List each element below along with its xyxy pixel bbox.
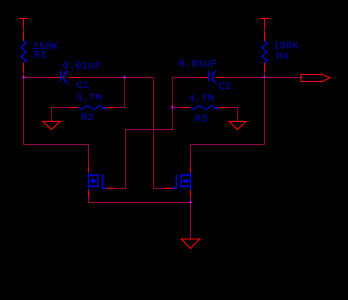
wire sources to ground — [89, 197, 191, 239]
output port — [301, 75, 330, 82]
wire node A to C1 — [24, 77, 51, 79]
label 0.01uF C2 — [179, 58, 232, 93]
svg-text:4.7M: 4.7M — [76, 93, 102, 105]
ground G3 — [181, 239, 199, 249]
resistor R3 — [182, 105, 230, 109]
node B junction — [263, 76, 266, 79]
svg-text:R3: R3 — [195, 113, 208, 125]
transistor M2 — [164, 167, 191, 197]
label 150K R1 — [33, 41, 59, 62]
power symbol V+ right — [260, 19, 270, 27]
svg-text:R1: R1 — [34, 50, 47, 62]
wire right rail top — [264, 27, 266, 34]
svg-text:R2: R2 — [81, 112, 94, 124]
wire node A down to drain M1 — [24, 78, 89, 167]
junction at C1/R2 node — [123, 76, 126, 79]
svg-text:4.7M: 4.7M — [189, 93, 215, 105]
power symbol V+ left — [19, 19, 28, 27]
resistor R4 — [262, 33, 267, 71]
svg-text:0.01uF: 0.01uF — [179, 58, 217, 70]
label 4.7M R2 — [76, 93, 102, 124]
junction sources — [189, 201, 192, 204]
label 150K R4 — [273, 40, 299, 63]
capacitor C1 — [50, 71, 81, 83]
svg-text:0.01uF: 0.01uF — [63, 60, 101, 72]
svg-text:C2: C2 — [219, 81, 232, 93]
wire M1 gate to cross net3 — [115, 78, 173, 189]
wire R2 left to ground — [52, 108, 70, 122]
wire net2 down (C1 right to M2 gate) — [154, 78, 165, 189]
resistor R1 — [21, 33, 26, 71]
label 0.01uF C1 — [63, 60, 101, 92]
wire node B down to drain M2 — [191, 78, 265, 167]
wire down to R2 — [116, 78, 125, 108]
junction R3 left — [171, 106, 174, 109]
wire junction to R3 — [173, 107, 182, 109]
svg-text:R4: R4 — [276, 51, 289, 63]
resistor R2 — [70, 105, 116, 109]
label 4.7M R3 — [189, 93, 215, 126]
wire R3 right to ground — [229, 108, 238, 122]
wire C1 right to corner — [81, 77, 154, 79]
svg-text:C1: C1 — [76, 80, 89, 92]
node A junction — [22, 76, 25, 79]
wire C2 right to node B — [226, 77, 265, 79]
wire left rail top — [23, 27, 25, 34]
wire node B — [264, 71, 266, 78]
wire node A to R1 — [23, 71, 25, 78]
transistor M1 — [89, 167, 116, 197]
capacitor C2 — [200, 71, 226, 83]
ground G2 — [229, 121, 246, 129]
wire node B to output — [265, 77, 302, 79]
wire net3 to C2 — [173, 77, 200, 79]
ground G1 — [43, 121, 60, 129]
